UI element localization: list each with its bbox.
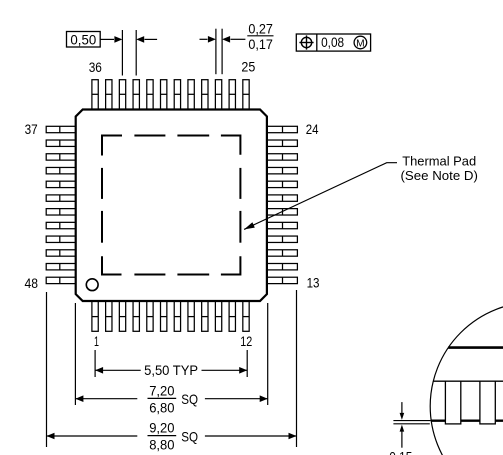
svg-text:SQ: SQ xyxy=(181,428,198,444)
svg-text:25: 25 xyxy=(241,59,255,75)
svg-text:M: M xyxy=(356,37,365,49)
svg-text:Thermal Pad: Thermal Pad xyxy=(402,153,476,168)
svg-text:0,27: 0,27 xyxy=(248,21,273,37)
svg-text:37: 37 xyxy=(25,121,38,137)
svg-text:SQ: SQ xyxy=(181,391,198,407)
svg-text:36: 36 xyxy=(89,59,102,75)
svg-text:12: 12 xyxy=(240,333,252,349)
svg-text:5,50 TYP: 5,50 TYP xyxy=(144,362,198,378)
svg-text:48: 48 xyxy=(25,275,39,291)
svg-text:9,20: 9,20 xyxy=(149,420,174,436)
svg-text:0,50: 0,50 xyxy=(70,31,96,47)
svg-text:8,80: 8,80 xyxy=(149,437,174,453)
svg-text:(See Note D): (See Note D) xyxy=(401,168,478,183)
svg-text:7,20: 7,20 xyxy=(149,383,174,399)
svg-text:24: 24 xyxy=(306,121,319,137)
svg-text:13: 13 xyxy=(307,274,320,290)
svg-text:0,17: 0,17 xyxy=(248,36,273,52)
svg-text:6,80: 6,80 xyxy=(149,399,174,415)
svg-text:1: 1 xyxy=(94,333,99,349)
svg-text:0,15: 0,15 xyxy=(389,448,412,455)
svg-text:0,08: 0,08 xyxy=(321,35,344,50)
